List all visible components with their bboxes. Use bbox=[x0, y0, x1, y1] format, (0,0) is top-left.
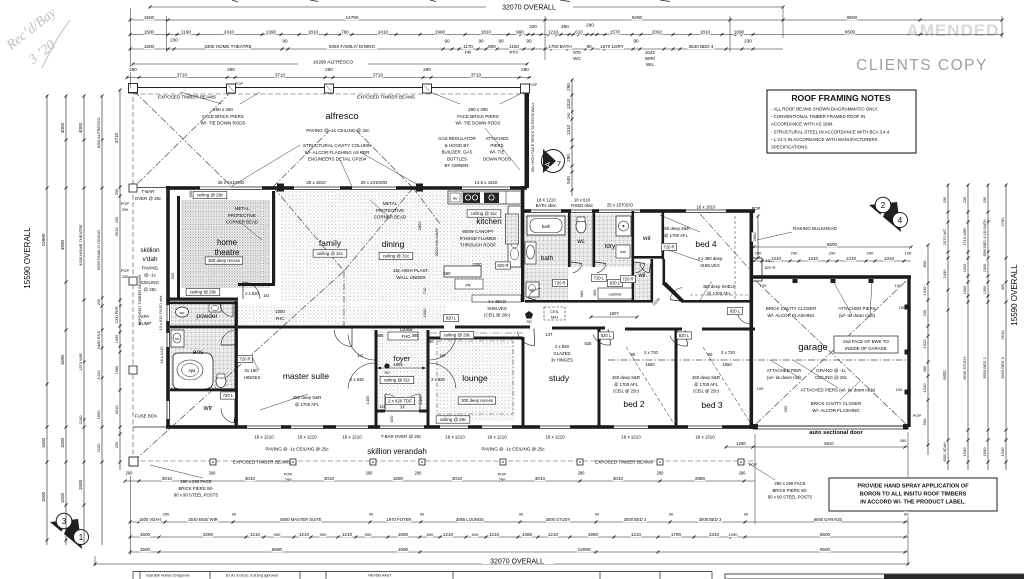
svg-text:290 x 290: 290 x 290 bbox=[468, 107, 488, 112]
note 800W CANOPY bbox=[460, 229, 497, 248]
svg-text:EXPOSED TIMBER BEAMS: EXPOSED TIMBER BEAMS bbox=[158, 95, 216, 100]
room label foyer bbox=[394, 354, 411, 363]
svg-text:7: 7 bbox=[557, 159, 561, 168]
note PAVING @ -1c CEILING @ 32c bbox=[306, 128, 370, 133]
svg-text:ceiling @ 28c: ceiling @ 28c bbox=[197, 193, 224, 198]
svg-text:90: 90 bbox=[631, 352, 636, 357]
svg-text:DOWN RODS: DOWN RODS bbox=[483, 156, 511, 161]
svg-text:home: home bbox=[217, 238, 238, 247]
overall label left bbox=[23, 227, 32, 289]
svg-text:2x 180°: 2x 180° bbox=[245, 368, 260, 373]
svg-text:study: study bbox=[549, 373, 570, 383]
garage internal 100 labels bbox=[757, 258, 906, 412]
svg-text:32070 OVERALL: 32070 OVERALL bbox=[490, 559, 544, 566]
svg-text:90: 90 bbox=[519, 511, 524, 516]
alfresco beam dashed bbox=[133, 93, 524, 95]
svg-text:4000 ALFRESCO: 4000 ALFRESCO bbox=[96, 117, 101, 148]
svg-text:90: 90 bbox=[708, 352, 713, 357]
wall: hall south / master-foyer-lounge-study top bbox=[238, 326, 755, 331]
svg-text:3500 HALLWAY: 3500 HALLWAY bbox=[434, 227, 439, 256]
svg-text:1370 WIR: 1370 WIR bbox=[78, 353, 83, 371]
wall: home theatre left bbox=[177, 196, 180, 300]
svg-text:skillion verandah: skillion verandah bbox=[367, 447, 427, 456]
svg-text:2 x 820: 2 x 820 bbox=[350, 377, 364, 382]
wall: lounge-study divider bbox=[522, 337, 525, 427]
svg-text:3540 BED 4: 3540 BED 4 bbox=[689, 44, 714, 49]
svg-text:18 x 1210: 18 x 1210 bbox=[445, 435, 465, 440]
svg-text:90: 90 bbox=[498, 38, 504, 43]
hall linen cabinet bbox=[472, 295, 521, 302]
svg-text:1580: 1580 bbox=[115, 366, 119, 374]
svg-text:1310: 1310 bbox=[884, 256, 895, 261]
svg-text:820 L: 820 L bbox=[679, 333, 690, 338]
svg-text:FUSE BOX: FUSE BOX bbox=[135, 414, 157, 419]
svg-text:1405: 1405 bbox=[418, 395, 423, 405]
svg-text:590: 590 bbox=[427, 339, 435, 344]
svg-text:cabinet: cabinet bbox=[609, 292, 623, 297]
svg-text:wir: wir bbox=[203, 405, 214, 412]
svg-text:230: 230 bbox=[983, 197, 987, 203]
svg-text:PAVING @ -1c CEILING @ 32: PAVING @ -1c CEILING @ 32c bbox=[306, 128, 370, 133]
svg-text:1390: 1390 bbox=[266, 29, 277, 34]
dimension extension verticals top bbox=[131, 8, 1003, 88]
svg-text:ENGINEERS DETAIL GP204: ENGINEERS DETAIL GP204 bbox=[308, 157, 367, 162]
svg-text:pty: pty bbox=[465, 283, 470, 287]
room label bed 3 bbox=[701, 400, 723, 410]
svg-text:1310: 1310 bbox=[566, 124, 571, 135]
box label 820 L bbox=[599, 332, 614, 339]
note METAL bbox=[226, 206, 258, 225]
svg-text:18 x 1210: 18 x 1210 bbox=[297, 435, 317, 440]
svg-text:1st: 1st bbox=[439, 353, 445, 358]
svg-text:18 x 1210: 18 x 1210 bbox=[545, 435, 565, 440]
svg-text:15590 OVERALL: 15590 OVERALL bbox=[23, 227, 32, 289]
svg-text:30c HIGH FACE BRICK SCREEN WAL: 30c HIGH FACE BRICK SCREEN WALL bbox=[530, 101, 535, 172]
wc toilet bbox=[576, 217, 586, 233]
svg-text:4990: 4990 bbox=[60, 239, 65, 250]
kitchen top bench and appliances bbox=[448, 191, 521, 204]
svg-text:890: 890 bbox=[922, 260, 927, 267]
svg-text:2070 WC: 2070 WC bbox=[942, 229, 947, 246]
dim garage 6500 bbox=[752, 242, 912, 249]
svg-text:ldry: ldry bbox=[605, 243, 616, 250]
svg-text:4 x 450 D: 4 x 450 D bbox=[488, 299, 506, 304]
note ATTACHED PIERS bbox=[838, 306, 875, 318]
svg-text:290: 290 bbox=[566, 154, 571, 162]
svg-text:1310: 1310 bbox=[922, 383, 927, 393]
ensuite wc bbox=[216, 374, 226, 388]
room label lounge bbox=[462, 373, 488, 383]
box label 820 R bbox=[496, 262, 511, 269]
svg-text:2 x 720: 2 x 720 bbox=[721, 350, 735, 355]
svg-text:6500: 6500 bbox=[820, 532, 831, 537]
svg-text:spa: spa bbox=[189, 368, 196, 373]
svg-text:10990: 10990 bbox=[41, 233, 46, 246]
svg-text:- L.V.L's IN ACCORDANCE WITH M: - L.V.L's IN ACCORDANCE WITH MANUFACTURE… bbox=[771, 137, 878, 142]
room label garage bbox=[798, 342, 828, 353]
note 4 x 450 D bbox=[484, 299, 511, 318]
box label 820 L bbox=[677, 332, 692, 339]
svg-text:1710 WIR: 1710 WIR bbox=[962, 228, 967, 246]
svg-text:385: 385 bbox=[377, 333, 385, 338]
interior rotated dims bbox=[170, 190, 597, 405]
svg-text:ATTACHED PIER: ATTACHED PIER bbox=[767, 368, 801, 373]
svg-text:90: 90 bbox=[633, 38, 639, 43]
dim 32070 overall bottom bbox=[93, 557, 909, 566]
svg-text:3710: 3710 bbox=[275, 72, 286, 77]
svg-text:590: 590 bbox=[320, 532, 327, 537]
svg-text:4300 HOME THEATRE: 4300 HOME THEATRE bbox=[204, 44, 252, 49]
svg-text:1310: 1310 bbox=[922, 286, 927, 296]
svg-text:4500 VDAH: 4500 VDAH bbox=[943, 442, 947, 462]
garage roof diagonal 2 bbox=[756, 281, 906, 424]
entry double doors bbox=[379, 394, 425, 411]
note STRUCTURAL CAVITY COLUMN bbox=[303, 143, 371, 162]
svg-text:WALL UNDER: WALL UNDER bbox=[396, 275, 426, 280]
svg-text:710: 710 bbox=[422, 287, 427, 294]
svg-text:1810: 1810 bbox=[700, 29, 711, 34]
svg-text:W/- TIE DOWN RODS: W/- TIE DOWN RODS bbox=[456, 121, 501, 126]
home theatre carpet texture bbox=[181, 200, 270, 288]
pop label south verandah bbox=[749, 462, 758, 467]
svg-text:bath: bath bbox=[542, 224, 551, 229]
svg-text:230: 230 bbox=[963, 197, 967, 203]
svg-text:PIERS: PIERS bbox=[490, 143, 503, 148]
svg-text:W/- TIE: W/- TIE bbox=[490, 150, 505, 155]
svg-text:230: 230 bbox=[97, 299, 101, 305]
garage store closet nib bbox=[752, 258, 762, 281]
wall: auto sectional door garage south bbox=[753, 424, 909, 430]
room label wir master bbox=[203, 405, 214, 412]
svg-text:1210: 1210 bbox=[548, 532, 559, 537]
note RAKING BULKHEAD bbox=[793, 226, 837, 231]
dim col left 2 bbox=[60, 94, 68, 545]
wall: bed4 west lower + diagonal bbox=[662, 259, 684, 303]
bottom title block bbox=[133, 572, 1024, 579]
svg-text:1570 LDRY: 1570 LDRY bbox=[600, 44, 624, 49]
washing machine bbox=[616, 245, 630, 258]
svg-text:1690: 1690 bbox=[393, 476, 404, 481]
svg-text:1500: 1500 bbox=[60, 492, 65, 503]
svg-text:EXPOSED TIMBER BEAMS: EXPOSED TIMBER BEAMS bbox=[357, 95, 415, 100]
note 4 x 350 deep bbox=[698, 256, 723, 268]
svg-text:3010: 3010 bbox=[535, 476, 546, 481]
svg-text:720 R: 720 R bbox=[554, 281, 565, 286]
svg-text:SHELVES: SHELVES bbox=[700, 263, 720, 268]
wall: alfresco screen wall east bbox=[525, 86, 530, 188]
svg-text:alfresco: alfresco bbox=[325, 111, 358, 122]
box 2nd face of bwk bbox=[834, 336, 898, 353]
box label 720 R bbox=[621, 275, 636, 282]
svg-text:1210: 1210 bbox=[342, 532, 353, 537]
foyer width dim 1865 bbox=[377, 367, 426, 370]
svg-text:ceiling @ 31c: ceiling @ 31c bbox=[471, 211, 498, 216]
svg-text:& HOOD BY: & HOOD BY bbox=[445, 143, 469, 148]
svg-text:4 x 350 deep: 4 x 350 deep bbox=[698, 256, 723, 261]
south west corner pier bbox=[129, 457, 138, 466]
svg-text:6500: 6500 bbox=[827, 242, 838, 247]
svg-text:1090: 1090 bbox=[729, 532, 739, 537]
wall: lounge top bbox=[428, 337, 523, 340]
svg-text:3510: 3510 bbox=[114, 405, 119, 415]
svg-text:3010: 3010 bbox=[324, 476, 335, 481]
room label ens bbox=[193, 349, 204, 356]
svg-text:5910: 5910 bbox=[824, 441, 834, 446]
bed2 diagonal dashed bbox=[626, 347, 674, 424]
svg-text:W/- ALCOR FLASHING: W/- ALCOR FLASHING bbox=[767, 313, 815, 318]
svg-text:290: 290 bbox=[227, 67, 235, 72]
door wir wing bbox=[634, 262, 645, 273]
wall: west wall with windows bbox=[165, 186, 170, 427]
lounge ceiling dash line bbox=[430, 332, 523, 334]
svg-text:ceiling @ 28c: ceiling @ 28c bbox=[190, 290, 217, 295]
svg-text:POP: POP bbox=[121, 201, 130, 206]
svg-text:FACE BRICK PIERS: FACE BRICK PIERS bbox=[202, 114, 244, 119]
svg-text:6550 GARAGE: 6550 GARAGE bbox=[814, 517, 843, 522]
wall: powder-ens divider bbox=[170, 326, 236, 329]
svg-text:290: 290 bbox=[657, 470, 665, 475]
room label dining bbox=[382, 239, 405, 249]
svg-text:820 R: 820 R bbox=[765, 265, 776, 270]
room label powder bbox=[196, 313, 218, 320]
svg-text:450 deep S&R: 450 deep S&R bbox=[692, 375, 720, 380]
wall: garage east with attached piers bbox=[905, 277, 911, 427]
door master suite bbox=[334, 329, 352, 347]
watermark AMENDED bbox=[907, 21, 1000, 40]
svg-text:wil: wil bbox=[638, 273, 646, 279]
svg-text:690: 690 bbox=[472, 532, 479, 537]
wall: wil east bbox=[651, 259, 654, 302]
svg-text:1000: 1000 bbox=[963, 264, 967, 272]
svg-text:1210: 1210 bbox=[299, 532, 310, 537]
svg-text:3005 BED 3: 3005 BED 3 bbox=[699, 517, 722, 522]
svg-text:230: 230 bbox=[744, 38, 752, 43]
note 450 deep S&R bbox=[612, 375, 640, 394]
room label bath bbox=[541, 255, 554, 262]
roof line dining to kitchen bbox=[413, 188, 441, 225]
dim col left 3 bbox=[78, 94, 86, 545]
window labels wing wall bbox=[536, 198, 761, 212]
svg-text:1810: 1810 bbox=[308, 29, 319, 34]
door bed4 bbox=[670, 288, 684, 302]
powder wc bbox=[176, 307, 189, 317]
smoke detector pentagon bbox=[525, 311, 533, 324]
svg-text:3010: 3010 bbox=[245, 476, 256, 481]
svg-text:theatre: theatre bbox=[215, 248, 240, 257]
svg-text:280: 280 bbox=[923, 366, 927, 372]
svg-text:6500: 6500 bbox=[845, 29, 856, 34]
svg-text:B.I.A.I.S.I.B.Sc. & B.Eng appr: B.I.A.I.S.I.B.Sc. & B.Eng approved bbox=[226, 574, 278, 578]
ceiling manhole dashed box bbox=[544, 307, 565, 320]
room label bed 4 bbox=[695, 239, 717, 249]
svg-text:powder: powder bbox=[196, 313, 218, 320]
svg-text:300 deep recess: 300 deep recess bbox=[461, 398, 493, 403]
wall: east wall of bed4 / bed3 / garage left bbox=[750, 211, 754, 429]
box label ceiling @ 31c bbox=[467, 210, 501, 217]
wall: bath block south bbox=[525, 300, 653, 303]
svg-text:300 deep recess: 300 deep recess bbox=[208, 258, 240, 263]
svg-text:auto sectional door: auto sectional door bbox=[809, 430, 863, 436]
svg-text:PROVIDE HAND SPRAY APPLICATION: PROVIDE HAND SPRAY APPLICATION OF bbox=[857, 484, 969, 490]
left rotated window labels bbox=[137, 274, 164, 363]
note 450 deep S&R bbox=[662, 226, 690, 238]
svg-text:3955 LOUNGE: 3955 LOUNGE bbox=[456, 517, 484, 522]
svg-text:wc: wc bbox=[180, 311, 185, 315]
dim col right 2 bbox=[942, 183, 950, 470]
dim col right 1 bbox=[922, 243, 930, 455]
verandah west beam dashed bbox=[132, 97, 134, 455]
svg-text:3010: 3010 bbox=[613, 476, 624, 481]
svg-text:IN ACCORD W/- THE PRODUCT LABE: IN ACCORD W/- THE PRODUCT LABEL. bbox=[860, 500, 966, 506]
roof hip line alfresco west bay 2 bbox=[134, 91, 232, 187]
svg-text:290: 290 bbox=[129, 67, 137, 72]
wall: ldry-wir divider bbox=[632, 211, 635, 302]
leader lines annotations bbox=[150, 92, 872, 480]
svg-text:2 x 820: 2 x 820 bbox=[431, 377, 445, 382]
wall: kitchen-bath vertical bbox=[521, 186, 524, 302]
note GAS REGULATOR bbox=[438, 136, 475, 168]
note 2 x 820 bbox=[551, 344, 573, 363]
svg-text:1690: 1690 bbox=[60, 354, 65, 365]
wall: south wall with windows bbox=[166, 424, 755, 429]
note FUSE BOX bbox=[135, 414, 157, 419]
room label bed 2 bbox=[623, 399, 645, 409]
svg-text:INSIDE OF GARAGE: INSIDE OF GARAGE bbox=[845, 346, 887, 351]
powder room tiles bbox=[171, 303, 235, 325]
foyer smoke detector bbox=[384, 363, 390, 375]
note T-BAR bbox=[135, 189, 162, 201]
window labels north wall bbox=[218, 180, 498, 185]
svg-text:3x HINGES: 3x HINGES bbox=[551, 358, 573, 363]
door ens bbox=[221, 330, 236, 345]
wall: study-bed2 divider bbox=[598, 329, 601, 427]
svg-text:790: 790 bbox=[341, 29, 349, 34]
svg-text:(CEIL @ 28c): (CEIL @ 28c) bbox=[484, 313, 511, 318]
door leaf labels small bbox=[245, 262, 735, 409]
svg-text:970: 970 bbox=[573, 50, 581, 55]
svg-text:290: 290 bbox=[783, 405, 788, 412]
svg-text:290: 290 bbox=[566, 112, 571, 119]
svg-text:wm: wm bbox=[620, 250, 626, 254]
dim row bottom piers bbox=[123, 470, 755, 482]
west verandah piers bbox=[129, 184, 137, 374]
note ATTACHED bbox=[483, 136, 511, 161]
svg-text:2 x 820: 2 x 820 bbox=[555, 344, 570, 349]
svg-text:5590 FAMILY/ DINING: 5590 FAMILY/ DINING bbox=[96, 230, 101, 270]
svg-text:1170: 1170 bbox=[463, 44, 473, 49]
svg-text:320: 320 bbox=[529, 24, 537, 29]
svg-text:820 L: 820 L bbox=[730, 309, 741, 314]
svg-text:25 x 2410S/D: 25 x 2410S/D bbox=[361, 180, 388, 185]
bath tub bbox=[527, 216, 565, 235]
wall: powder / hall top bbox=[168, 302, 236, 305]
svg-text:3930 STUDY: 3930 STUDY bbox=[962, 356, 967, 380]
svg-text:385: 385 bbox=[412, 333, 420, 338]
svg-text:1690: 1690 bbox=[398, 532, 409, 537]
garage roof diagonal 1 bbox=[756, 281, 906, 424]
wall: wir bottom shelf wall bbox=[634, 256, 664, 259]
svg-text:BY OWNER.: BY OWNER. bbox=[444, 163, 469, 168]
svg-text:1000: 1000 bbox=[422, 308, 427, 318]
svg-text:16c HIGH PLAST.: 16c HIGH PLAST. bbox=[393, 268, 429, 273]
svg-text:10 x 610: 10 x 610 bbox=[574, 198, 591, 203]
hall floor texture bbox=[238, 304, 446, 325]
svg-text:skillion: skillion bbox=[140, 247, 160, 254]
door garage access bbox=[737, 310, 751, 324]
svg-text:100: 100 bbox=[757, 386, 764, 391]
svg-text:820 L: 820 L bbox=[446, 316, 457, 321]
dim col right 4 bbox=[982, 183, 990, 470]
svg-text:SHELVES: SHELVES bbox=[487, 306, 507, 311]
note BRICK CAVITY CLOSER bbox=[766, 306, 817, 318]
svg-text:1365: 1365 bbox=[522, 532, 533, 537]
svg-text:METAL: METAL bbox=[235, 206, 250, 211]
top page edge marks bbox=[232, 0, 670, 2]
svg-text:3950 BED 2: 3950 BED 2 bbox=[982, 356, 987, 378]
skillion verandah label bbox=[367, 447, 427, 456]
svg-text:6510: 6510 bbox=[1000, 330, 1005, 340]
svg-text:590: 590 bbox=[365, 532, 372, 537]
note PAVING @ -1c CEILING @ 25c bbox=[481, 447, 545, 452]
svg-text:1210: 1210 bbox=[489, 532, 500, 537]
svg-text:450: 450 bbox=[592, 289, 597, 296]
svg-text:2: 2 bbox=[881, 201, 886, 210]
svg-text:32070 OVERALL: 32070 OVERALL bbox=[502, 5, 556, 12]
dim col right 3 bbox=[962, 183, 970, 470]
west verandah pier top bbox=[129, 84, 138, 93]
wall: garage north bbox=[753, 275, 911, 283]
room label ldry bbox=[605, 243, 616, 250]
svg-text:POP: POP bbox=[529, 82, 538, 87]
svg-text:BRICK CAVITY CLOSER: BRICK CAVITY CLOSER bbox=[766, 306, 817, 311]
svg-text:1000: 1000 bbox=[963, 286, 967, 294]
svg-text:10 x 610 FIXED obs: 10 x 610 FIXED obs bbox=[158, 296, 163, 331]
svg-text:2480 ENS: 2480 ENS bbox=[96, 331, 101, 350]
svg-text:GAS REGULATOR: GAS REGULATOR bbox=[438, 136, 475, 141]
svg-text:2780: 2780 bbox=[1000, 217, 1005, 227]
note ATTACHED PIER bbox=[767, 368, 802, 380]
svg-text:90: 90 bbox=[444, 38, 450, 43]
svg-text:1210: 1210 bbox=[631, 532, 642, 537]
wil tiles bbox=[633, 263, 652, 302]
svg-text:230: 230 bbox=[170, 37, 178, 42]
box label 300 deep recess lounge bbox=[458, 397, 496, 404]
svg-text:CEILING: CEILING bbox=[141, 280, 160, 285]
svg-text:290: 290 bbox=[791, 250, 798, 255]
svg-text:90: 90 bbox=[595, 511, 600, 516]
roof ridge family vertical bbox=[343, 271, 345, 327]
svg-text:1865: 1865 bbox=[393, 362, 403, 367]
svg-text:90: 90 bbox=[232, 511, 237, 516]
svg-text:HINGES: HINGES bbox=[244, 375, 261, 380]
svg-text:GLAZED: GLAZED bbox=[553, 351, 570, 356]
svg-text:bed 2: bed 2 bbox=[623, 399, 645, 409]
svg-text:450 deep S&R: 450 deep S&R bbox=[612, 375, 640, 380]
svg-text:ceiling @ 28c: ceiling @ 28c bbox=[444, 333, 471, 338]
svg-text:BUILDER. GAS: BUILDER. GAS bbox=[442, 150, 473, 155]
svg-text:1970 FOYER: 1970 FOYER bbox=[387, 517, 412, 522]
svg-text:1500: 1500 bbox=[60, 437, 65, 448]
svg-text:3010: 3010 bbox=[162, 476, 173, 481]
room label alfresco bbox=[325, 111, 358, 122]
svg-text:- CONVENTIONAL TIMBER FRAMED R: - CONVENTIONAL TIMBER FRAMED ROOF IN bbox=[771, 114, 865, 119]
svg-text:100: 100 bbox=[899, 305, 906, 310]
svg-text:290: 290 bbox=[163, 511, 170, 516]
svg-text:SD: SD bbox=[384, 371, 390, 375]
svg-text:16 x 1410: 16 x 1410 bbox=[159, 346, 164, 364]
dim 32070 overall top bbox=[148, 5, 784, 12]
svg-text:490: 490 bbox=[561, 24, 569, 29]
